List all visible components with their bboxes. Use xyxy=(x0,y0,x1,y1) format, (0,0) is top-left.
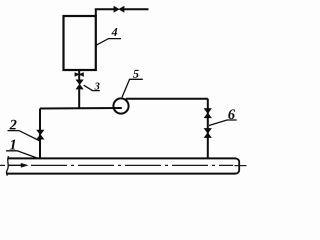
pipe right break xyxy=(236,158,240,173)
valve at vent line (top) xyxy=(114,6,125,13)
label 6 xyxy=(228,109,235,119)
label 4 xyxy=(111,28,117,36)
tank 4 xyxy=(64,16,96,70)
tank outlet fitting bowtie xyxy=(75,72,84,77)
pipe bottom wall xyxy=(7,173,236,175)
wire left horizontal run xyxy=(40,107,122,110)
leader for label 2 xyxy=(8,131,41,141)
flow arrow xyxy=(8,164,23,166)
label 1 xyxy=(10,140,16,150)
wire below valve 3 xyxy=(78,89,80,108)
pipe centerline xyxy=(0,164,247,166)
label 2 xyxy=(9,120,16,130)
pipe left break xyxy=(6,156,8,175)
valve 6 upper xyxy=(204,108,212,118)
wire right horizontal run xyxy=(126,98,208,100)
wire riser from tank top xyxy=(95,9,97,16)
leader for label 3 xyxy=(84,85,100,90)
label 3 xyxy=(95,83,100,90)
leader for label 5 xyxy=(122,79,143,97)
wire left branch vertical xyxy=(39,109,41,159)
leader for label 1 xyxy=(6,151,37,158)
wire vent line right of valve xyxy=(124,8,148,10)
leader for label 4 xyxy=(96,39,121,46)
valve 6 lower xyxy=(204,128,212,138)
device circle 5 xyxy=(113,98,128,113)
valve 2 xyxy=(36,130,44,140)
wire tank outlet xyxy=(78,70,80,80)
wire vent line left of valve xyxy=(95,8,114,10)
wire right branch vertical xyxy=(207,99,209,159)
leader for label 6 xyxy=(209,120,237,126)
label 5 xyxy=(133,70,139,78)
pipe top wall xyxy=(8,157,237,159)
valve 3 xyxy=(76,80,84,90)
